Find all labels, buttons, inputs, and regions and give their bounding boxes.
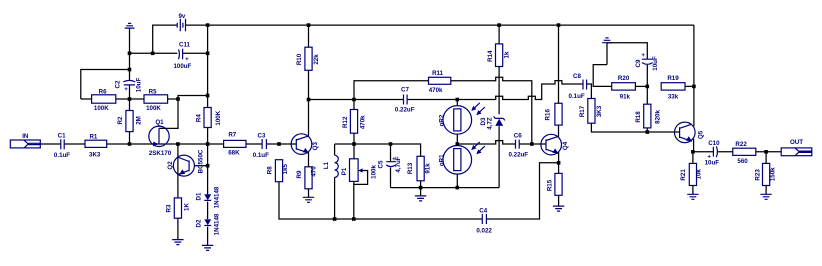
inductor L1 xyxy=(323,155,338,177)
svg-text:R6: R6 xyxy=(99,88,107,95)
svg-text:R14: R14 xyxy=(487,50,494,62)
transistor Q3 xyxy=(291,134,319,155)
svg-text:150k: 150k xyxy=(770,167,777,181)
wire R19 right lead xyxy=(685,85,694,87)
svg-text:C5: C5 xyxy=(377,160,384,168)
svg-text:OUT: OUT xyxy=(790,139,803,146)
junction oR2 top on line B xyxy=(456,98,460,102)
svg-text:91k: 91k xyxy=(425,163,432,174)
transistor Q5 xyxy=(675,122,705,143)
capacitor C4 xyxy=(476,207,492,234)
junction bias row x=129.5 xyxy=(128,97,132,101)
svg-text:10k: 10k xyxy=(696,169,703,180)
wire sidechain line B y=99.5 with hops xyxy=(309,81,592,100)
svg-text:R22: R22 xyxy=(735,141,747,148)
svg-text:R17: R17 xyxy=(579,105,586,117)
junction Q5 emitter node xyxy=(691,150,695,154)
junction Q2 base / diode chain xyxy=(206,164,210,168)
svg-text:BC550C: BC550C xyxy=(198,149,205,173)
svg-text:C9: C9 xyxy=(635,59,642,67)
junction ground stem / R6 loop xyxy=(128,68,132,72)
opto-resistor oR2 xyxy=(438,103,485,134)
resistor R21 xyxy=(680,163,703,185)
wire R18 leads x=647.3 xyxy=(646,86,648,132)
wire RC node row y=144 xyxy=(335,144,421,156)
svg-text:0.1uF: 0.1uF xyxy=(54,152,70,159)
svg-text:100uF: 100uF xyxy=(173,63,191,70)
svg-text:oR1: oR1 xyxy=(438,154,445,166)
svg-text:0.1uF: 0.1uF xyxy=(253,152,269,159)
svg-text:3K3: 3K3 xyxy=(89,151,101,158)
junction R19 right on Q5 collector column xyxy=(692,85,696,89)
capacitor C7 xyxy=(395,87,415,114)
resistor R8 xyxy=(267,160,290,182)
wire bias row y=99 xyxy=(81,98,178,100)
capacitor C1 xyxy=(54,132,70,159)
wire C9 top link and bottom lead xyxy=(607,43,647,87)
wire Q2 collector xyxy=(177,144,179,165)
ground top inverted near C9 xyxy=(602,38,612,43)
ground below R15 xyxy=(553,206,564,211)
wire Q5 collector column x=693.9 xyxy=(693,25,695,126)
svg-text:R7: R7 xyxy=(228,132,236,139)
wire R20 right lead xyxy=(635,85,647,87)
wire R14 D3 column x=499.1 xyxy=(498,25,500,188)
svg-text:C4: C4 xyxy=(479,207,487,214)
wire sidechain ground row y=187.6 xyxy=(391,187,500,189)
svg-text:Q4: Q4 xyxy=(562,141,569,150)
resistor R20 xyxy=(612,75,636,101)
wire ground stem / C2 column x=129.5 xyxy=(129,28,131,99)
svg-text:1N4148: 1N4148 xyxy=(213,213,220,235)
wire R17 bottom to Q5 base y=132 xyxy=(591,123,679,132)
junction Q2 collector on main wire xyxy=(176,142,180,146)
resistor R23 xyxy=(755,163,777,185)
svg-text:1k5: 1k5 xyxy=(282,163,289,174)
svg-text:0.1uF: 0.1uF xyxy=(569,93,585,100)
wire P1 column xyxy=(353,144,355,219)
resistor R17 xyxy=(579,99,603,124)
svg-text:C2: C2 xyxy=(114,80,121,88)
wire Q1 drain link xyxy=(159,96,208,129)
svg-text:R5: R5 xyxy=(149,88,157,95)
transistor Q1 2SK170 xyxy=(149,119,172,157)
wire diode chain vertical x=207.6 xyxy=(207,144,209,245)
junction R12 bottom / P1 top on RC row xyxy=(352,142,356,146)
svg-text:D1: D1 xyxy=(195,192,202,200)
wire C5 top lead xyxy=(390,144,392,161)
svg-text:R4: R4 xyxy=(196,114,203,122)
svg-text:Q3: Q3 xyxy=(312,142,319,151)
resistor R18 xyxy=(635,104,661,128)
wire line A R11 row y=80.7 with hop, drop to Q4 base xyxy=(354,77,532,144)
ground below R3 xyxy=(172,240,183,245)
svg-text:4,7Z: 4,7Z xyxy=(487,117,494,130)
capacitor C3 xyxy=(253,132,269,159)
ground below R9 xyxy=(303,197,314,202)
svg-text:R10: R10 xyxy=(296,53,303,65)
transistor Q4 xyxy=(541,134,569,155)
svg-text:+: + xyxy=(124,86,128,93)
capacitor C9 xyxy=(635,52,659,71)
wire Q5 emitter xyxy=(693,139,695,152)
junction C11 right on rail drop xyxy=(206,52,210,56)
svg-text:R21: R21 xyxy=(680,169,687,181)
wire L1 leads xyxy=(334,144,336,219)
potentiometer P1 xyxy=(341,159,377,182)
junction R18 bottom on Q5 base wire xyxy=(646,130,650,134)
resistor R4 xyxy=(196,108,223,128)
wire Q3 emitter lead xyxy=(308,152,310,167)
svg-text:2M: 2M xyxy=(135,116,142,125)
resistor R11 xyxy=(429,70,451,94)
svg-text:R20: R20 xyxy=(618,75,630,82)
wire R12 leads xyxy=(353,100,355,145)
svg-text:P1: P1 xyxy=(341,167,348,175)
wire vactrol leads x=457.3 xyxy=(456,100,458,188)
svg-text:R23: R23 xyxy=(755,169,762,181)
resistor R15 xyxy=(547,173,563,195)
resistor R2 xyxy=(117,111,142,132)
svg-text:Q5: Q5 xyxy=(697,130,704,139)
junction R10 top on rail xyxy=(307,23,311,27)
svg-text:R1: R1 xyxy=(89,133,97,140)
wire Q4 emitter / R15 column xyxy=(558,152,560,206)
svg-text:10uF: 10uF xyxy=(705,160,720,167)
svg-text:Q2: Q2 xyxy=(167,161,174,170)
junction Q4 emitter node xyxy=(557,161,561,165)
svg-text:R2: R2 xyxy=(117,116,124,124)
junction R14 top on rail xyxy=(497,23,501,27)
svg-text:+: + xyxy=(185,56,189,63)
junction R16 top on rail xyxy=(557,23,561,27)
ground top-left inverted xyxy=(125,23,135,28)
svg-text:R3: R3 xyxy=(165,204,172,212)
junction rail / battery positive xyxy=(206,23,210,27)
capacitor C2 xyxy=(114,78,142,94)
svg-text:22k: 22k xyxy=(313,54,320,65)
svg-text:2SK170: 2SK170 xyxy=(149,150,172,157)
resistor R13 xyxy=(407,156,432,181)
svg-text:1k: 1k xyxy=(504,51,511,58)
svg-text:R18: R18 xyxy=(635,111,642,123)
wire R10 column / Q3 collector x=308.5 xyxy=(308,25,310,137)
battery 9v xyxy=(177,13,186,31)
zener diode D3 xyxy=(480,116,505,129)
capacitor C6 xyxy=(508,132,528,158)
wire output row y=151.8 xyxy=(694,151,782,153)
ground below R21 xyxy=(687,194,698,199)
svg-text:C3: C3 xyxy=(258,132,266,139)
ground below R23 xyxy=(760,194,771,199)
wire R3 ground lead xyxy=(177,218,179,239)
wire R21 leads xyxy=(692,152,694,194)
wire vactrol mid to C6 to Q4 base y=144 with hop xyxy=(457,141,546,144)
svg-text:91k: 91k xyxy=(620,94,631,101)
svg-text:C1: C1 xyxy=(58,132,66,139)
capacitor C10 xyxy=(705,140,721,167)
capacitor C5 xyxy=(377,156,402,172)
resistor R10 xyxy=(296,47,320,70)
svg-text:68K: 68K xyxy=(228,149,240,156)
svg-text:R13: R13 xyxy=(407,162,414,174)
wire R6 feedback loop xyxy=(81,70,130,100)
wire rail drop to R4 x=207.6 xyxy=(207,25,209,107)
svg-text:9v: 9v xyxy=(178,13,185,20)
junction R13 bottom on ground row xyxy=(419,186,423,190)
wire R16 column / Q4 collector x=558.5 xyxy=(558,25,560,138)
wire R4 bottom lead xyxy=(207,128,209,145)
svg-text:R12: R12 xyxy=(342,116,349,128)
junction R4 bottom / diode chain on main wire xyxy=(206,142,210,146)
junction drain link on rail drop xyxy=(206,94,210,98)
junction line A drop at Q4 base xyxy=(530,142,534,146)
junction R8 top on main wire xyxy=(277,142,281,146)
svg-text:C8: C8 xyxy=(573,73,581,80)
resistor R14 xyxy=(487,44,511,67)
svg-text:C6: C6 xyxy=(514,132,522,139)
opto-resistor oR1 xyxy=(438,142,485,174)
resistor R3 xyxy=(165,198,190,218)
connector OUT xyxy=(781,139,812,156)
capacitor C8 xyxy=(569,73,587,100)
connector IN xyxy=(10,133,40,148)
svg-text:R11: R11 xyxy=(432,70,444,77)
resistor R5 xyxy=(144,88,168,112)
wire R23 leads xyxy=(765,152,767,194)
wire top supply rail y=24.8 xyxy=(186,24,694,26)
junction vactrol mid node xyxy=(456,142,460,146)
svg-text:470: 470 xyxy=(311,166,318,177)
junction L1 bottom on bottom rail xyxy=(333,217,337,221)
capacitor C11 xyxy=(173,41,191,70)
svg-text:100K: 100K xyxy=(146,105,161,112)
svg-text:R9: R9 xyxy=(296,170,303,178)
svg-text:1K: 1K xyxy=(183,203,190,211)
junction P1 bottom on bottom rail xyxy=(352,217,356,221)
svg-text:470k: 470k xyxy=(359,115,366,129)
svg-text:33k: 33k xyxy=(668,94,679,101)
svg-text:Q1: Q1 xyxy=(155,119,164,126)
junction C5 top on RC row xyxy=(389,142,393,146)
resistor R9 xyxy=(296,166,318,189)
wire battery negative branch xyxy=(153,25,177,53)
svg-text:C10: C10 xyxy=(708,140,720,147)
svg-text:470k: 470k xyxy=(429,87,443,94)
svg-text:0.022: 0.022 xyxy=(476,227,492,234)
wire C5 bottom lead xyxy=(390,168,392,188)
svg-text:10uF: 10uF xyxy=(652,56,659,71)
ground below D2 xyxy=(202,245,213,250)
svg-text:820k: 820k xyxy=(654,110,661,124)
svg-text:560: 560 xyxy=(737,158,748,165)
svg-text:3K3: 3K3 xyxy=(596,105,603,117)
wire P1 wiper link xyxy=(354,171,368,185)
resistor R16 xyxy=(544,103,562,125)
wire main input line y=144 xyxy=(40,143,296,145)
svg-text:+: + xyxy=(641,52,645,59)
svg-text:D2: D2 xyxy=(195,219,202,227)
junction ground stem / C11 row xyxy=(128,52,132,56)
svg-text:1N4148: 1N4148 xyxy=(213,186,220,208)
svg-text:L1: L1 xyxy=(323,161,330,169)
svg-text:oR2: oR2 xyxy=(438,114,445,126)
svg-text:0.22uF: 0.22uF xyxy=(508,151,528,158)
resistor R12 xyxy=(342,110,367,134)
svg-text:R16: R16 xyxy=(544,109,551,121)
resistor R22 xyxy=(733,141,756,165)
wire R13 bottom lead xyxy=(420,181,422,196)
svg-text:R15: R15 xyxy=(547,179,554,191)
diode D2 1N4148 xyxy=(195,213,220,235)
wire Q2 emitter to R3 xyxy=(177,165,179,198)
resistor R19 xyxy=(661,75,685,101)
svg-text:100k: 100k xyxy=(370,165,377,179)
resistor R7 xyxy=(224,132,246,157)
junction R5 right / drain column xyxy=(176,97,180,101)
resistor R1 xyxy=(85,133,107,158)
wire R9 ground lead xyxy=(308,189,310,197)
svg-text:C7: C7 xyxy=(401,87,409,94)
junction R12 column / line B xyxy=(352,98,356,102)
junction R23 top on output row xyxy=(764,150,768,154)
svg-text:R8: R8 xyxy=(267,166,274,174)
svg-text:R19: R19 xyxy=(667,75,679,82)
wire C11 row y=53.3 xyxy=(130,52,208,54)
junction R2 bottom on main wire xyxy=(128,142,132,146)
transistor Q2 BC550C xyxy=(167,149,204,176)
svg-text:C11: C11 xyxy=(179,41,191,48)
svg-text:4,7uF: 4,7uF xyxy=(395,156,402,172)
ground below R13 xyxy=(415,196,426,201)
junction line B at Q3 collector xyxy=(307,98,311,102)
svg-text:100K: 100K xyxy=(94,105,109,112)
diode D1 1N4148 xyxy=(195,186,220,208)
junction battery negative / C11 xyxy=(151,52,155,56)
svg-text:0.22uF: 0.22uF xyxy=(395,106,415,113)
junction R18 top / R20 / R19 / C9 xyxy=(646,85,650,89)
svg-text:100K: 100K xyxy=(215,110,222,125)
junction oR1 bottom on ground row xyxy=(456,186,460,190)
svg-text:IN: IN xyxy=(22,133,29,140)
wire Q2 base to diode chain xyxy=(194,165,207,167)
svg-text:10uF: 10uF xyxy=(136,78,143,93)
wire R20 ground elbow xyxy=(593,43,612,87)
wire R2 branch vertical x=129.5 xyxy=(129,99,131,144)
wire bottom rail y=219 xyxy=(279,163,559,219)
resistor R6 xyxy=(92,88,116,112)
